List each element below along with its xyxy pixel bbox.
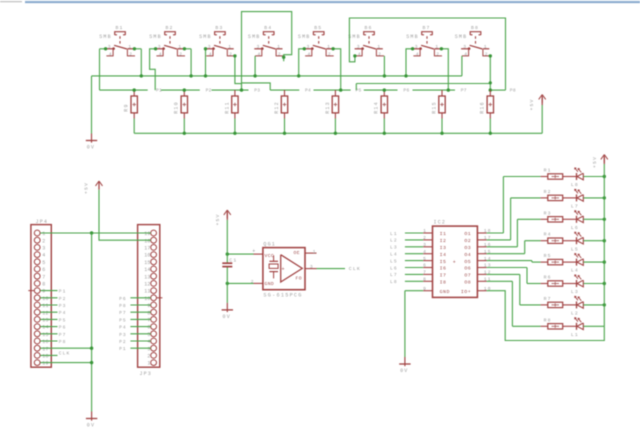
svg-text:10: 10 xyxy=(42,296,48,302)
svg-text:3: 3 xyxy=(307,44,311,50)
svg-text:P7: P7 xyxy=(119,310,127,316)
svg-text:15: 15 xyxy=(144,260,150,266)
svg-text:P8: P8 xyxy=(119,303,127,309)
svg-text:P3: P3 xyxy=(254,87,260,93)
svg-text:I4: I4 xyxy=(440,252,447,258)
svg-text:P6: P6 xyxy=(403,87,409,93)
svg-text:R2: R2 xyxy=(544,189,552,195)
svg-text:9: 9 xyxy=(147,303,150,309)
svg-text:1: 1 xyxy=(377,44,381,50)
svg-text:SMB: SMB xyxy=(298,34,311,40)
svg-text:9: 9 xyxy=(423,286,427,292)
svg-text:+5V: +5V xyxy=(529,98,535,110)
svg-text:P1: P1 xyxy=(156,87,162,93)
svg-text:CLK: CLK xyxy=(349,266,361,272)
svg-text:R13: R13 xyxy=(325,101,331,114)
svg-text:14: 14 xyxy=(42,325,48,331)
svg-text:7: 7 xyxy=(423,270,427,276)
svg-text:17: 17 xyxy=(42,346,48,352)
svg-text:R7: R7 xyxy=(544,296,552,302)
svg-text:3: 3 xyxy=(42,246,45,252)
svg-text:7: 7 xyxy=(42,274,45,280)
svg-text:1: 1 xyxy=(147,361,150,367)
svg-text:+5V: +5V xyxy=(84,182,90,194)
svg-text:QG1: QG1 xyxy=(263,241,276,247)
svg-text:SG-615PCG: SG-615PCG xyxy=(263,292,302,298)
svg-text:18: 18 xyxy=(42,354,48,360)
svg-text:O1: O1 xyxy=(464,231,471,237)
svg-text:4: 4 xyxy=(308,52,312,58)
svg-text:P1: P1 xyxy=(119,346,127,352)
svg-text:4: 4 xyxy=(464,52,468,58)
svg-text:R3: R3 xyxy=(544,210,552,216)
svg-text:P4: P4 xyxy=(59,310,67,316)
svg-text:I5: I5 xyxy=(440,259,447,265)
svg-text:7: 7 xyxy=(147,318,150,324)
svg-text:3: 3 xyxy=(208,44,212,50)
svg-text:JP4: JP4 xyxy=(36,219,49,225)
svg-text:8: 8 xyxy=(42,282,45,288)
svg-text:6: 6 xyxy=(42,267,45,273)
svg-text:3: 3 xyxy=(147,346,150,352)
svg-text:L8: L8 xyxy=(390,279,398,285)
svg-text:B6: B6 xyxy=(365,25,373,31)
svg-text:B1: B1 xyxy=(116,25,124,31)
svg-text:P6: P6 xyxy=(119,296,127,302)
svg-text:2: 2 xyxy=(378,52,382,58)
svg-text:2: 2 xyxy=(251,279,255,285)
svg-text:8: 8 xyxy=(147,310,150,316)
svg-text:1: 1 xyxy=(228,44,232,50)
svg-text:R9: R9 xyxy=(124,103,130,111)
svg-text:O7: O7 xyxy=(464,273,471,279)
svg-text:18: 18 xyxy=(144,238,150,244)
svg-text:O8: O8 xyxy=(464,280,471,286)
svg-text:9: 9 xyxy=(42,289,45,295)
svg-text:5: 5 xyxy=(42,260,45,266)
svg-text:SMB: SMB xyxy=(348,34,361,40)
svg-text:4: 4 xyxy=(358,52,362,58)
svg-text:2: 2 xyxy=(485,52,489,58)
svg-text:R15: R15 xyxy=(431,101,437,114)
svg-text:L4: L4 xyxy=(571,268,579,274)
svg-text:L5: L5 xyxy=(571,246,579,252)
svg-text:P7: P7 xyxy=(59,332,67,338)
svg-text:R1: R1 xyxy=(544,168,552,174)
svg-text:3: 3 xyxy=(415,44,419,50)
svg-text:I7: I7 xyxy=(440,273,447,279)
svg-text:P3: P3 xyxy=(119,332,127,338)
svg-text:L3: L3 xyxy=(571,289,579,295)
svg-text:P4: P4 xyxy=(119,325,127,331)
svg-text:14: 14 xyxy=(144,267,150,273)
svg-text:C1: C1 xyxy=(229,258,237,264)
svg-text:P7: P7 xyxy=(461,87,467,93)
svg-text:2: 2 xyxy=(423,235,427,241)
svg-text:5: 5 xyxy=(423,256,427,262)
svg-text:L4: L4 xyxy=(390,252,398,258)
svg-text:B7: B7 xyxy=(423,25,431,31)
svg-text:L3: L3 xyxy=(390,245,398,251)
svg-text:R16: R16 xyxy=(480,101,486,114)
svg-text:B2: B2 xyxy=(166,25,174,31)
svg-text:5: 5 xyxy=(147,332,150,338)
svg-text:4: 4 xyxy=(209,52,213,58)
svg-text:L7: L7 xyxy=(390,272,398,278)
svg-text:R6: R6 xyxy=(544,275,552,281)
svg-text:3: 3 xyxy=(158,44,162,50)
svg-text:I8: I8 xyxy=(440,280,447,286)
svg-text:1: 1 xyxy=(277,44,281,50)
svg-text:P3: P3 xyxy=(59,303,67,309)
svg-text:4: 4 xyxy=(258,52,262,58)
svg-text:4: 4 xyxy=(159,52,163,58)
svg-text:P4: P4 xyxy=(305,87,311,93)
svg-text:2: 2 xyxy=(229,52,233,58)
svg-text:15: 15 xyxy=(42,332,48,338)
svg-text:I6: I6 xyxy=(440,266,447,272)
svg-text:R8: R8 xyxy=(544,317,552,323)
svg-text:L6: L6 xyxy=(571,225,579,231)
svg-text:1: 1 xyxy=(423,228,427,234)
svg-text:1: 1 xyxy=(313,249,317,255)
svg-text:3: 3 xyxy=(108,44,112,50)
svg-text:2: 2 xyxy=(147,354,150,360)
svg-text:SMB: SMB xyxy=(99,34,112,40)
svg-text:10: 10 xyxy=(144,296,150,302)
svg-text:8: 8 xyxy=(423,277,427,283)
svg-text:L6: L6 xyxy=(390,265,398,271)
svg-text:L1: L1 xyxy=(390,231,398,237)
svg-text:O2: O2 xyxy=(464,238,471,244)
svg-text:VCC: VCC xyxy=(265,253,275,259)
svg-text:4: 4 xyxy=(423,249,427,255)
svg-text:1: 1 xyxy=(178,44,182,50)
svg-text:P1: P1 xyxy=(59,289,67,295)
svg-text:IC2: IC2 xyxy=(434,220,447,226)
svg-text:11: 11 xyxy=(42,303,48,309)
svg-text:1: 1 xyxy=(435,44,439,50)
svg-text:SMB: SMB xyxy=(406,34,419,40)
svg-text:SMB: SMB xyxy=(199,34,212,40)
svg-text:I3: I3 xyxy=(440,245,447,251)
svg-text:GND: GND xyxy=(440,289,450,295)
svg-text:O4: O4 xyxy=(464,252,471,258)
svg-text:L1: L1 xyxy=(571,332,579,338)
svg-text:4: 4 xyxy=(147,339,150,345)
svg-text:P5: P5 xyxy=(119,317,127,323)
svg-text:0V: 0V xyxy=(87,145,95,151)
svg-text:L7: L7 xyxy=(571,204,579,210)
svg-text:IO+: IO+ xyxy=(461,289,471,295)
svg-text:+5V: +5V xyxy=(215,213,221,225)
svg-text:O5: O5 xyxy=(464,259,471,265)
svg-text:P2: P2 xyxy=(119,339,127,345)
svg-text:L8: L8 xyxy=(571,182,579,188)
svg-text:B3: B3 xyxy=(215,25,223,31)
svg-text:L5: L5 xyxy=(390,258,398,264)
svg-text:R4: R4 xyxy=(544,232,552,238)
svg-text:P5: P5 xyxy=(59,317,67,323)
svg-text:SMB: SMB xyxy=(455,34,468,40)
svg-text:SMB: SMB xyxy=(149,34,162,40)
svg-text:3: 3 xyxy=(423,242,427,248)
svg-text:2: 2 xyxy=(278,52,282,58)
svg-text:+: + xyxy=(453,259,456,265)
svg-text:0V: 0V xyxy=(87,423,95,429)
svg-text:P6: P6 xyxy=(59,325,67,331)
svg-text:+: + xyxy=(281,267,284,273)
svg-text:1: 1 xyxy=(327,44,331,50)
svg-text:3: 3 xyxy=(357,44,361,50)
svg-text:O6: O6 xyxy=(464,266,471,272)
svg-text:B5: B5 xyxy=(314,25,322,31)
svg-text:+5V: +5V xyxy=(592,156,598,168)
svg-text:P2: P2 xyxy=(59,296,67,302)
svg-text:6: 6 xyxy=(147,325,150,331)
svg-text:16: 16 xyxy=(144,253,150,259)
svg-text:4: 4 xyxy=(416,52,420,58)
svg-text:16: 16 xyxy=(42,339,48,345)
svg-text:1: 1 xyxy=(42,231,45,237)
svg-text:3: 3 xyxy=(310,264,314,270)
svg-text:2: 2 xyxy=(179,52,183,58)
svg-text:0V: 0V xyxy=(400,368,408,374)
svg-text:13: 13 xyxy=(42,318,48,324)
svg-text:2: 2 xyxy=(42,238,45,244)
svg-text:2: 2 xyxy=(436,52,440,58)
svg-text:4: 4 xyxy=(109,52,113,58)
svg-text:L2: L2 xyxy=(571,311,579,317)
svg-text:I2: I2 xyxy=(440,238,447,244)
svg-text:FO: FO xyxy=(296,275,302,281)
svg-text:19: 19 xyxy=(144,231,150,237)
svg-text:GND: GND xyxy=(265,281,275,287)
svg-text:B4: B4 xyxy=(264,25,272,31)
svg-text:13: 13 xyxy=(144,274,150,280)
svg-text:R5: R5 xyxy=(544,253,552,259)
svg-text:R11: R11 xyxy=(224,101,230,114)
svg-text:P2: P2 xyxy=(206,87,212,93)
svg-text:SMB: SMB xyxy=(248,34,261,40)
svg-text:3: 3 xyxy=(257,44,261,50)
svg-text:R14: R14 xyxy=(374,101,380,114)
svg-text:2: 2 xyxy=(328,52,332,58)
svg-text:0V: 0V xyxy=(223,314,231,320)
svg-text:OE: OE xyxy=(294,250,300,256)
svg-text:P8: P8 xyxy=(510,87,516,93)
svg-text:3: 3 xyxy=(463,44,467,50)
svg-text:CLK: CLK xyxy=(59,351,71,357)
svg-text:4: 4 xyxy=(42,253,45,259)
svg-text:R12: R12 xyxy=(274,101,280,114)
svg-text:JP3: JP3 xyxy=(139,371,152,377)
svg-text:I1: I1 xyxy=(440,231,447,237)
svg-text:L2: L2 xyxy=(390,238,398,244)
svg-text:2: 2 xyxy=(129,52,133,58)
svg-text:11: 11 xyxy=(144,289,150,295)
svg-text:R10: R10 xyxy=(174,101,180,114)
svg-text:P8: P8 xyxy=(59,339,67,345)
svg-text:12: 12 xyxy=(144,282,150,288)
svg-text:1: 1 xyxy=(484,44,488,50)
svg-text:6: 6 xyxy=(423,263,427,269)
svg-text:B8: B8 xyxy=(471,25,479,31)
svg-text:19: 19 xyxy=(42,361,48,367)
svg-text:12: 12 xyxy=(42,310,48,316)
svg-text:17: 17 xyxy=(144,246,150,252)
svg-text:O3: O3 xyxy=(464,245,471,251)
svg-text:1: 1 xyxy=(128,44,132,50)
